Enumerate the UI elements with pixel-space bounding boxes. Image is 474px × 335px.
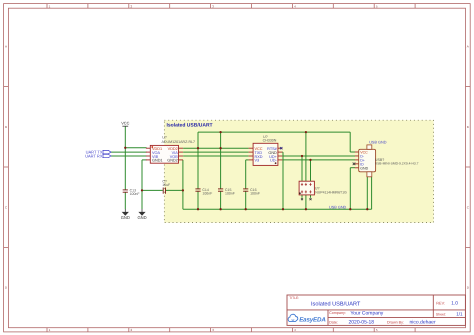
svg-text:CH330N: CH330N (263, 139, 277, 143)
svg-text:ADUM1201ARZ-RL7: ADUM1201ARZ-RL7 (162, 140, 196, 144)
svg-text:REV:: REV: (436, 301, 445, 305)
svg-text:NUP4114HMR6T1G: NUP4114HMR6T1G (315, 190, 347, 194)
svg-text:TITLE:: TITLE: (289, 296, 299, 300)
svg-text:Isolated USB/UART: Isolated USB/UART (311, 301, 361, 308)
svg-text:GND: GND (137, 215, 146, 220)
svg-text:100nF: 100nF (130, 192, 140, 196)
svg-text:B: B (5, 125, 7, 129)
svg-text:V3: V3 (255, 159, 260, 163)
svg-text:100nF: 100nF (202, 192, 212, 196)
svg-text:A: A (467, 45, 469, 49)
svg-text:1.0: 1.0 (451, 300, 458, 306)
svg-text:Company:: Company: (329, 311, 346, 315)
svg-text:A: A (5, 45, 7, 49)
svg-text:USB-MINI-SMD-9.2X9.4-H3.7: USB-MINI-SMD-9.2X9.4-H3.7 (375, 162, 419, 166)
svg-text:1/1: 1/1 (456, 311, 463, 316)
svg-text:B: B (467, 125, 469, 129)
svg-text:USB GND: USB GND (369, 140, 387, 144)
svg-text:10uF: 10uF (162, 183, 170, 187)
svg-text:Isolated USB/UART: Isolated USB/UART (167, 122, 213, 128)
svg-text:VCC: VCC (121, 121, 129, 126)
svg-text:GND: GND (360, 167, 368, 171)
svg-text:EasyEDA: EasyEDA (299, 317, 326, 324)
svg-text:UD-: UD- (270, 159, 277, 163)
svg-text:USB GND: USB GND (329, 205, 347, 209)
svg-text:100nF: 100nF (225, 192, 235, 196)
svg-text:Drawn By:: Drawn By: (387, 320, 404, 324)
svg-text:2020-05-18: 2020-05-18 (349, 320, 375, 326)
svg-text:GND1: GND1 (152, 159, 163, 163)
svg-text:100nF: 100nF (250, 192, 260, 196)
svg-text:Date:: Date: (329, 320, 338, 324)
svg-text:UART RX: UART RX (85, 153, 103, 158)
svg-text:Your Company: Your Company (350, 311, 383, 317)
svg-text:nico.dehaer: nico.dehaer (410, 320, 436, 326)
svg-text:Sheet:: Sheet: (436, 312, 446, 316)
svg-text:GND2: GND2 (167, 159, 178, 163)
svg-text:GND: GND (121, 215, 130, 220)
